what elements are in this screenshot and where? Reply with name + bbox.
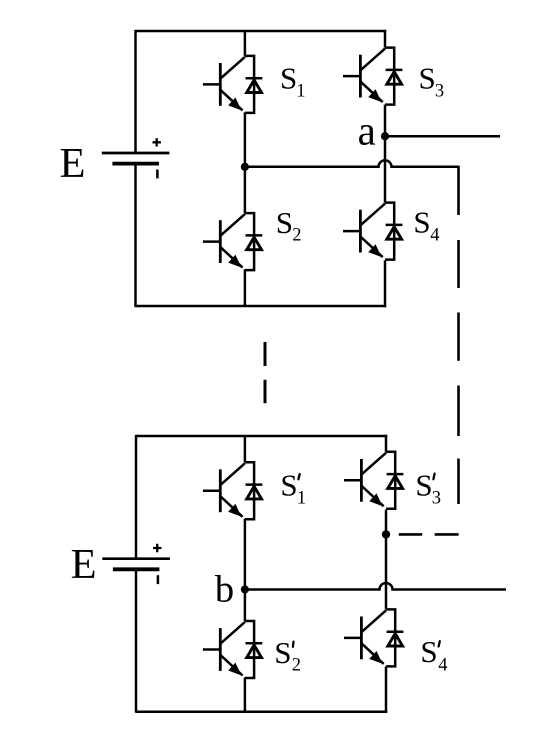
wire left rail bridge1 lower: [134, 164, 137, 308]
transistor S3' (IGBT with diode): [344, 452, 403, 509]
wire left leg bridge2 top: [244, 436, 247, 462]
label S2': [274, 635, 301, 675]
svg-text:b: b: [215, 569, 234, 611]
label S3': [415, 467, 441, 508]
label S2: [276, 205, 302, 246]
transistor S2' (IGBT with diode): [203, 621, 262, 678]
svg-text:S: S: [413, 205, 430, 240]
wire left rail bridge2 lower: [135, 569, 138, 713]
wire right leg bridge2 top: [385, 435, 388, 452]
wire right leg bridge1 bottom: [384, 260, 387, 307]
svg-text:S: S: [280, 468, 297, 503]
svg-text:E: E: [71, 541, 97, 588]
svg-text:1: 1: [296, 81, 305, 101]
wire mid link from left-leg node, with hop over right leg: [245, 160, 459, 167]
node a (junction dot): [381, 132, 389, 140]
battery E2: [102, 544, 170, 584]
wire right leg bridge1 middle (through node a and hop): [384, 105, 387, 203]
wire top rail bridge1: [136, 30, 387, 33]
wire output a: [385, 135, 500, 138]
label S3: [419, 60, 445, 101]
dashed wire vertical link x=458.5: [457, 166, 460, 215]
transistor S4 (IGBT with diode): [343, 203, 402, 260]
svg-text:1: 1: [297, 489, 306, 509]
svg-text:a: a: [358, 108, 376, 154]
transistor S1' (IGBT with diode): [203, 462, 262, 519]
svg-text:3: 3: [432, 488, 441, 508]
dashed wire horizontal link y=534.4: [435, 533, 459, 536]
svg-text:E: E: [60, 140, 86, 187]
svg-text:2: 2: [292, 226, 301, 246]
dashed separator (more cells): [264, 342, 267, 403]
wire left leg bridge1 middle: [244, 112, 247, 213]
svg-text:S: S: [415, 467, 432, 502]
wire right leg bridge1 top: [384, 30, 387, 48]
transistor S2 (IGBT with diode): [203, 213, 262, 270]
svg-text:S: S: [420, 634, 437, 669]
wire output b with hop over right leg: [245, 583, 506, 589]
wire left leg bridge1 top: [244, 31, 247, 56]
wire left leg bridge2 middle (through node b): [244, 519, 247, 621]
wire left leg bridge2 bottom: [244, 678, 247, 712]
svg-text:S: S: [274, 635, 291, 670]
transistor S4' (IGBT with diode): [344, 609, 403, 666]
label S4: [413, 205, 439, 246]
svg-text:4: 4: [430, 226, 439, 246]
label S1: [280, 60, 305, 101]
transistor S1 (IGBT with diode): [203, 56, 262, 113]
svg-text:4: 4: [438, 655, 447, 675]
node b (junction dot): [241, 585, 249, 593]
wire left rail bridge2 upper: [135, 435, 138, 559]
wire left leg bridge1 bottom: [244, 269, 247, 306]
wire right leg bridge2 middle (through dot and hop): [385, 510, 388, 610]
battery E1: [102, 138, 170, 178]
svg-text:S: S: [419, 60, 436, 95]
wire left rail bridge1 upper: [134, 30, 137, 153]
label S4': [420, 634, 447, 676]
svg-text:3: 3: [435, 81, 444, 101]
wire top rail bridge2: [136, 435, 387, 438]
wire right leg bridge2 bottom: [385, 666, 388, 713]
wire bottom rail bridge2: [136, 710, 387, 713]
svg-text:S: S: [276, 205, 293, 240]
label S1': [280, 468, 306, 509]
wire bottom rail bridge1: [136, 305, 387, 308]
svg-text:S: S: [280, 60, 297, 95]
node right-leg midpoint bridge2 (junction dot, dashed link): [382, 530, 390, 538]
node midpoint left leg bridge1 (junction dot): [241, 163, 249, 171]
transistor S3 (IGBT with diode): [343, 48, 402, 105]
svg-text:2: 2: [292, 655, 301, 675]
